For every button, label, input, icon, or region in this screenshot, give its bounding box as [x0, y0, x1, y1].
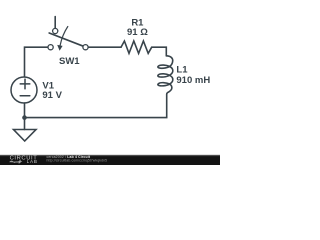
- svg-text:L1: L1: [176, 64, 188, 75]
- footer bar: [0, 156, 220, 165]
- svg-text:LAB: LAB: [27, 159, 37, 164]
- CircuitLab logo squiggle and bolt: [10, 160, 21, 163]
- wire top-left horizontal (V1 top to SW1 left): [25, 47, 48, 77]
- svg-text:http://circuitlab.com/ccmq5t7w: http://circuitlab.com/ccmq5t7wkqkdn5: [47, 159, 108, 163]
- switch SW1 arrowhead: [57, 45, 62, 51]
- svg-text:SW1: SW1: [59, 56, 80, 67]
- wire SW1 right to R1: [88, 46, 121, 48]
- svg-text:91 Ω: 91 Ω: [127, 27, 148, 38]
- switch SW1 right terminal (common): [83, 45, 88, 50]
- voltage source V1 circle: [11, 77, 37, 103]
- resistor R1 zigzag: [121, 41, 152, 53]
- svg-text:910 mH: 910 mH: [176, 75, 210, 86]
- ground symbol: [14, 130, 37, 142]
- wire V1 bottom to junction: [24, 103, 26, 118]
- switch SW1 toggle arrow arc: [60, 27, 68, 46]
- junction dot at ground rail: [22, 115, 27, 120]
- ground stub: [24, 118, 26, 130]
- svg-text:91 V: 91 V: [42, 90, 62, 101]
- inductor L1 coil: [158, 56, 173, 95]
- V1 plus sign: [20, 83, 30, 85]
- switch SW1 top stub: [54, 17, 56, 29]
- switch SW1 arm: [49, 33, 82, 46]
- switch SW1 top terminal: [53, 28, 58, 33]
- wire L1 bottom to ground rail: [25, 95, 167, 118]
- wire R1 to L1 top: [152, 47, 167, 56]
- switch SW1 left terminal: [48, 45, 53, 50]
- V1 minus sign: [20, 95, 30, 97]
